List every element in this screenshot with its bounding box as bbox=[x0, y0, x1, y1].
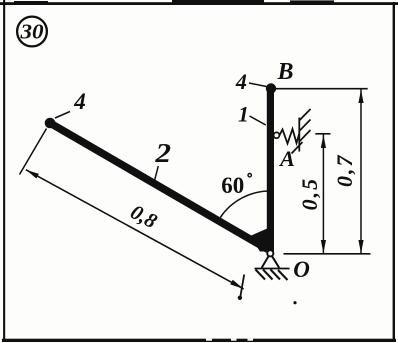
dimension 0,5 line bbox=[322, 135, 324, 254]
rod 2 (inclined) bbox=[50, 123, 268, 250]
O level line bbox=[284, 253, 371, 255]
ground line at O bbox=[255, 268, 290, 270]
dimension 0,5 arrowheads bbox=[321, 135, 326, 148]
svg-text:B: B bbox=[276, 59, 293, 85]
svg-text:60: 60 bbox=[221, 173, 244, 198]
dimension 0,5 top tick bbox=[315, 133, 330, 135]
B level line bbox=[276, 88, 368, 90]
pin at O bbox=[267, 250, 273, 256]
spring wall anchor line bbox=[298, 118, 300, 152]
svg-text:0,7: 0,7 bbox=[332, 154, 357, 188]
svg-text:2: 2 bbox=[154, 139, 171, 169]
dimension 0,7 line bbox=[360, 90, 362, 254]
rod junction wedge at O bbox=[250, 226, 274, 252]
svg-text:A: A bbox=[278, 146, 295, 171]
label 4 (near B) leader bbox=[249, 83, 266, 87]
svg-text:1: 1 bbox=[238, 102, 249, 127]
pivot support triangle at O bbox=[262, 256, 280, 268]
ground hatching bbox=[256, 270, 288, 281]
left end dot (point labelled 4) bbox=[45, 118, 56, 129]
spring pin circle at A bbox=[274, 132, 280, 138]
dimension 0,8 extension line (from left end dot) bbox=[20, 129, 47, 175]
dimension 0,8 upper arrowhead bbox=[26, 170, 39, 179]
label 2 leader bbox=[154, 166, 158, 182]
angle arc 60 deg bbox=[220, 191, 270, 217]
spring wall hatching bbox=[292, 109, 311, 154]
point B dot bbox=[266, 83, 276, 93]
label 4 (left end) leader bbox=[55, 112, 70, 119]
label 1 leader bbox=[250, 116, 266, 125]
spring 1 zigzag bbox=[279, 129, 299, 144]
svg-text:4: 4 bbox=[235, 69, 247, 94]
vertical rod OB bbox=[267, 88, 274, 251]
dimension 0,7 arrowheads bbox=[358, 90, 363, 103]
problem number badge 30 bbox=[17, 17, 47, 47]
svg-text:30: 30 bbox=[19, 20, 43, 44]
svg-text:O: O bbox=[293, 257, 310, 282]
svg-text:0,5: 0,5 bbox=[297, 177, 322, 211]
dimension 0,8 end tick near O bbox=[240, 275, 244, 298]
dimension 0,8 line bbox=[26, 170, 244, 289]
dimension 0,8 lower arrowhead bbox=[230, 280, 243, 289]
svg-text:4: 4 bbox=[73, 89, 86, 114]
